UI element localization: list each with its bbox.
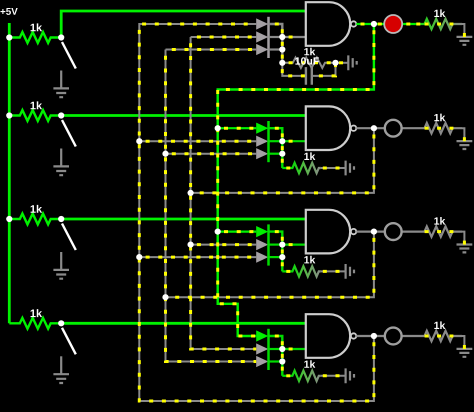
node cluster U1 rowB <box>279 34 285 40</box>
diode D2c <box>256 148 268 159</box>
label R8 value 1k <box>304 360 315 368</box>
wire bus B3 vertical (x=190) <box>191 37 257 349</box>
resistor R5 1k (U1 input RC) <box>282 58 335 68</box>
wire cathode bar cluster U1 <box>267 17 270 58</box>
node cluster U2 rowC <box>279 151 285 157</box>
wire bus B2 vertical (x=165) <box>166 50 257 362</box>
node bus B1 tap to D3c <box>136 254 142 260</box>
wire anode feed D1c dashes <box>166 48 257 51</box>
wire LED3 to resistor <box>393 231 415 233</box>
ground output row 1 <box>457 37 473 45</box>
wire U3 input B dash <box>282 243 298 246</box>
wire gate U3 output run dashes <box>166 232 374 298</box>
wire anode feed D1b dashes <box>191 36 257 39</box>
wire U3 output lead <box>356 231 374 233</box>
wire gate U2 output run dashes <box>191 128 374 193</box>
LED2 indicator (off) <box>385 120 402 137</box>
wire U2 pulldown ground dashes <box>321 167 346 170</box>
wire +5V vertical left rail <box>8 23 11 323</box>
wire bus B1 current dashes <box>139 24 374 401</box>
wire U2 output to LED <box>374 127 393 129</box>
wire gate U2 output run down-left <box>191 128 374 193</box>
wire anode feed to D3b <box>191 244 257 246</box>
node RC right junction <box>332 60 338 66</box>
LED4 indicator (off) <box>385 328 402 345</box>
node cluster U1 rowC <box>279 46 285 52</box>
diode D4a <box>256 330 268 341</box>
diode D1c <box>256 44 268 55</box>
ground for U4 pulldown <box>346 368 354 383</box>
resistor R2 1k pull-up row 2 <box>9 110 61 121</box>
wire anode feed to D1c <box>166 49 257 51</box>
wire cluster U4 rowA stub and vertical <box>269 336 283 376</box>
wire cluster U2 rowA stub and vertical <box>269 128 283 168</box>
wire cluster U2 rowB stub <box>269 140 283 142</box>
diode D3a <box>256 226 268 237</box>
wire anode feed to D2a <box>218 127 257 129</box>
resistor R12 1k output row 4 <box>415 331 462 341</box>
wire U2 pulldown lead <box>282 167 290 169</box>
node bus B4 tap to D3a <box>215 229 221 235</box>
wire U1 input B dash <box>282 36 298 39</box>
current dashes on R9 <box>425 23 429 26</box>
node switch-resistor junction row 1 <box>58 34 64 40</box>
diode D2b <box>256 136 268 147</box>
resistor R9 1k output row 1 <box>415 19 462 29</box>
wire anode feed to D3c <box>139 256 256 258</box>
node cluster U4 rowC <box>279 358 285 364</box>
wire U1 input B <box>282 36 306 38</box>
wire gate U4 output feedback bus (x=139) <box>139 24 374 401</box>
wire cluster U4 rowC stub <box>269 360 283 362</box>
wire cluster U1 rowC stub <box>269 48 283 50</box>
wire U4 output to LED <box>374 335 393 337</box>
node U1 output junction <box>371 21 377 27</box>
wire U2 pulldown to ground <box>321 167 346 169</box>
NAND gate U1 <box>306 2 350 46</box>
ground under switch S4 <box>53 374 69 383</box>
diode D1b <box>256 31 268 42</box>
wire gate U1 output feedback bus (green) <box>218 24 374 336</box>
diode D1a <box>256 18 268 29</box>
wire U4 pulldown lead <box>282 375 290 377</box>
wire U3 pulldown ground dashes <box>321 270 346 273</box>
ground for U1 RC <box>348 55 356 70</box>
capacitor C1 10uF <box>282 63 305 76</box>
wire RC ground stub dash <box>339 61 343 64</box>
wire U4 pulldown ground dashes <box>321 374 346 377</box>
wire U3 output to LED <box>374 231 393 233</box>
wire anode feed D3b dashes <box>191 243 257 246</box>
current dashes on R12 <box>425 335 429 338</box>
wire U4 input B dash <box>282 348 298 351</box>
node bus B4 tap to D2a <box>215 125 221 131</box>
wire cluster U3 rowB stub <box>269 244 283 246</box>
wire cluster U4 rowB stub <box>269 348 283 350</box>
wire anode feed D3a dashes <box>218 230 257 233</box>
label R3 value 1k <box>31 205 43 213</box>
ground output row 4 <box>457 349 473 357</box>
label R2 value 1k <box>31 101 43 109</box>
label R7 value 1k <box>304 256 315 264</box>
wire cluster U1 dashes <box>269 24 283 64</box>
wire row1 rail up to gate U1 input A <box>61 11 306 38</box>
wire gate U3 output run down-left <box>166 232 374 298</box>
wire U4 pulldown lead dashes <box>282 374 290 377</box>
node rail tap row 3 <box>6 216 12 222</box>
wire cluster U3 dashes <box>269 232 283 272</box>
wire U2 output lead <box>356 127 374 129</box>
wire U1 output dashes <box>361 23 365 26</box>
label R12 value 1k <box>434 321 445 329</box>
wire anode feed to D3a <box>218 231 257 233</box>
resistor R6 1k pulldown U2 <box>290 163 320 173</box>
diode D3c <box>256 252 268 263</box>
node switch-resistor junction row 4 <box>58 320 64 326</box>
wire cathode bar cluster U4 <box>267 329 270 370</box>
ground for U2 pulldown <box>346 161 354 176</box>
node cluster U3 rowB <box>279 242 285 248</box>
wire anode feed to D2c <box>166 153 257 155</box>
ground under switch S1 <box>53 88 69 97</box>
wire U2 input B <box>282 140 306 142</box>
ground under switch S2 <box>53 166 69 175</box>
wire row2 rail to gate U2 input A <box>61 114 306 117</box>
resistor R3 1k pull-up row 3 <box>9 214 61 225</box>
wire RC to ground <box>336 62 349 64</box>
wire cluster U4 dashes <box>269 336 283 376</box>
node U4 output junction <box>371 333 377 339</box>
wire RC dash top <box>282 61 335 64</box>
node rail tap row 2 <box>6 112 12 118</box>
wire bus B3 dashes <box>191 37 257 349</box>
wire U1 output lead <box>356 23 374 25</box>
wire row4 rail to gate U4 input A <box>61 322 306 325</box>
node cluster U3 rowC <box>279 254 285 260</box>
resistor R4 1k pull-up row 4 <box>9 318 61 329</box>
wire anode feed D2b dashes <box>139 140 256 143</box>
wire cluster U2 rowC stub <box>269 153 283 155</box>
LED3 indicator (off) <box>385 223 402 240</box>
wire U3 input B <box>282 244 306 246</box>
node bus B3 tap to D3b <box>188 242 194 248</box>
label R9 value 1k <box>434 9 445 17</box>
resistor R8 1k pulldown U4 <box>290 371 320 381</box>
wire U3 pulldown to ground <box>321 270 346 272</box>
node bus B1 tap to D2b <box>136 138 142 144</box>
wire row3 rail to gate U3 input A <box>61 218 306 221</box>
node switch-resistor junction row 2 <box>58 112 64 118</box>
ground under switch S3 <box>53 270 69 279</box>
wire R10 to ground <box>462 128 464 141</box>
switch S4 (open) row 4 <box>62 328 76 355</box>
wire U4 pulldown to ground <box>321 375 346 377</box>
node rail tap row 1 <box>6 34 12 40</box>
wire U2 pulldown lead dashes <box>282 167 290 170</box>
label R11 value 1k <box>434 217 445 225</box>
wire cluster U1 rowB stub <box>269 36 283 38</box>
NAND gate U4 <box>306 314 350 358</box>
current dashes on R10 <box>425 127 429 130</box>
wire R9 to ground <box>462 24 464 37</box>
NAND gate U3 <box>306 210 350 254</box>
wire U2 input B dash <box>282 140 298 143</box>
wire R11 to ground <box>462 232 464 245</box>
wire cluster U1 rowA stub and vertical <box>269 24 283 64</box>
resistor R11 1k output row 3 <box>415 226 462 236</box>
label C1 value 10uF <box>295 57 318 64</box>
node U3 output junction <box>371 229 377 235</box>
ground output row 3 <box>457 245 473 253</box>
resistor R10 1k output row 2 <box>415 123 462 133</box>
LED1 indicator (lit red) <box>384 15 402 33</box>
diode D3b <box>256 239 268 250</box>
switch S2 (open) row 2 <box>62 120 76 147</box>
wire R12 to ground <box>462 336 464 349</box>
wire bus B2 dashes <box>166 50 257 362</box>
wire cluster U2 dashes <box>269 128 283 168</box>
node bus B2 join from U3 output <box>162 294 168 300</box>
wire anode feed D2c dashes <box>166 152 257 155</box>
wire U3 pulldown lead dashes <box>282 270 290 273</box>
label R4 value 1k <box>31 309 43 317</box>
label R5 value 1k <box>304 48 315 56</box>
wire U1 output to LED <box>374 23 393 25</box>
node cluster U2 rowB <box>279 138 285 144</box>
current dashes on R11 <box>425 230 429 233</box>
power rail +5V label <box>0 8 17 15</box>
wire U4 output lead <box>356 335 374 337</box>
resistor R7 1k pulldown U3 <box>290 266 320 276</box>
wire bus B4 dashes <box>218 24 374 336</box>
node bus B3 join from U2 output <box>188 190 194 196</box>
wire anode feed to D1b <box>191 36 257 38</box>
wire LED4 to resistor <box>393 335 415 337</box>
wire cluster U3 rowA stub and vertical <box>269 232 283 272</box>
node U2 output junction <box>371 125 377 131</box>
wire anode feed D2a dashes <box>218 127 257 130</box>
node bus B2 tap to D2c <box>162 151 168 157</box>
label R10 value 1k <box>434 114 445 122</box>
wire cathode bar cluster U2 <box>267 121 270 162</box>
node RC left junction <box>279 60 285 66</box>
wire cluster U3 rowC stub <box>269 256 283 258</box>
label R6 value 1k <box>304 152 315 160</box>
ground for U3 pulldown <box>346 264 354 279</box>
wire LED2 to resistor <box>393 127 415 129</box>
wire U3 pulldown lead <box>282 270 290 272</box>
resistor R1 1k pull-up row 1 <box>9 32 61 43</box>
wire anode feed to D2b <box>139 140 256 142</box>
label R1 value 1k <box>31 23 43 31</box>
node switch-resistor junction row 3 <box>58 216 64 222</box>
wire anode feed D3c dashes <box>139 256 256 259</box>
switch S3 (open) row 3 <box>62 224 76 251</box>
diode D4b <box>256 343 268 354</box>
ground output row 2 <box>457 141 473 149</box>
NAND gate U2 <box>306 106 350 150</box>
wire cathode bar cluster U3 <box>267 224 270 265</box>
switch S1 (open) row 1 <box>62 42 76 69</box>
diode D4c <box>256 356 268 367</box>
node cluster U4 rowB <box>279 346 285 352</box>
wire U4 input B <box>282 348 306 350</box>
wire LED1 to resistor <box>393 23 415 25</box>
diode D2a <box>256 123 268 134</box>
wire cap branch dashes <box>282 63 305 76</box>
